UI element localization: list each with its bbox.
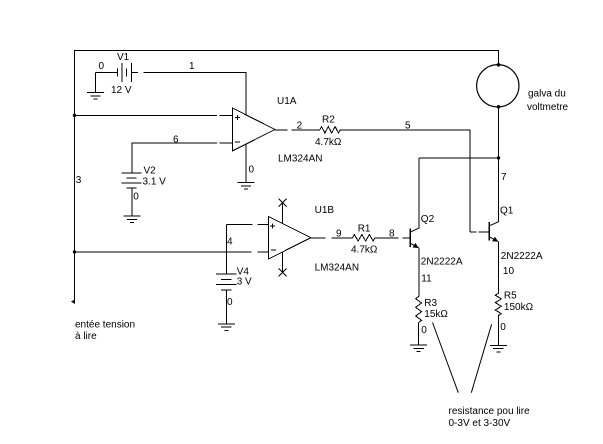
svg-text:7: 7 xyxy=(501,172,507,183)
U1B V- power pin (unconnected) xyxy=(282,252,284,273)
battery V1 plates xyxy=(116,68,118,76)
U1B V+ power pin (unconnected) xyxy=(282,203,284,224)
svg-text:V1: V1 xyxy=(117,52,130,63)
galvanometer bottom pin dot xyxy=(497,105,501,109)
Q2 emitter arrowhead xyxy=(413,243,419,248)
ground at V1 xyxy=(87,92,104,94)
svg-text:R2: R2 xyxy=(322,115,335,126)
svg-text:U1A: U1A xyxy=(277,96,297,107)
svg-text:2N2222A: 2N2222A xyxy=(501,251,543,262)
svg-text:galva du: galva du xyxy=(528,89,566,100)
U1B V+ pin X mark xyxy=(279,199,287,207)
wire net 5 from R2 to Q1 base xyxy=(340,129,470,131)
svg-text:voltmetre: voltmetre xyxy=(527,102,569,113)
svg-text:10: 10 xyxy=(503,266,515,277)
junction dot net 7 xyxy=(497,156,500,159)
transistor Q1 base bar xyxy=(488,222,490,241)
svg-text:3.1 V: 3.1 V xyxy=(143,177,167,188)
wire net 7 galvanometer to Q1 collector xyxy=(498,107,500,222)
junction dot net 3 at inverting input wire xyxy=(73,250,76,253)
wire V1 negative lead xyxy=(96,72,118,74)
U1A plus sign xyxy=(235,117,240,119)
Q2 emitter diagonal xyxy=(411,243,419,247)
svg-text:à lire: à lire xyxy=(75,331,97,342)
op-amp U1A triangle xyxy=(233,108,276,151)
svg-text:4: 4 xyxy=(227,237,233,248)
svg-text:0: 0 xyxy=(99,61,105,72)
wire V1 ground lead xyxy=(95,73,97,93)
svg-text:6: 6 xyxy=(173,135,179,146)
wire end marker (entree tension, open end) xyxy=(71,299,75,304)
svg-text:0: 0 xyxy=(421,325,427,336)
wire V2 top lead xyxy=(131,143,133,174)
Q1 collector diagonal xyxy=(490,222,499,226)
svg-text:Q1: Q1 xyxy=(500,206,514,217)
svg-text:2: 2 xyxy=(297,121,303,132)
op-amp U1B triangle xyxy=(269,217,311,260)
svg-text:150kΩ: 150kΩ xyxy=(504,302,534,313)
svg-text:R3: R3 xyxy=(424,298,437,309)
wire V4 to ground xyxy=(225,290,227,324)
U1B plus sign xyxy=(270,225,275,227)
svg-text:0: 0 xyxy=(227,297,233,308)
ground at V4 xyxy=(218,323,235,325)
wire U1A non-inverting input xyxy=(75,114,217,116)
wire R3 to ground xyxy=(418,323,420,346)
wire net 7 branch to Q2 collector xyxy=(419,157,499,159)
svg-text:4.7kΩ: 4.7kΩ xyxy=(315,137,342,148)
callout line from R5 xyxy=(471,324,491,392)
Q1 emitter arrowhead xyxy=(492,237,498,242)
resistor R3 xyxy=(416,297,422,323)
wire net 4 vertical to V4 xyxy=(225,224,227,273)
wire V2 to ground xyxy=(131,188,133,216)
U1A minus sign xyxy=(235,141,240,143)
battery V4 plates xyxy=(216,273,237,275)
galvanometer top pin dot xyxy=(497,63,501,67)
svg-text:LM324AN: LM324AN xyxy=(278,154,322,165)
wire net 6 U1A inverting input xyxy=(132,142,217,144)
wire galvanometer top lead xyxy=(498,50,500,65)
svg-text:0: 0 xyxy=(249,165,255,176)
transistor Q2 base bar xyxy=(409,228,411,247)
svg-text:11: 11 xyxy=(421,274,432,285)
ground at R5 xyxy=(490,344,507,346)
svg-text:LM324AN: LM324AN xyxy=(315,263,359,274)
svg-text:3 V: 3 V xyxy=(237,277,252,288)
U1A V- power pin to ground xyxy=(245,144,247,182)
svg-text:5: 5 xyxy=(405,121,411,132)
Q2 collector diagonal xyxy=(411,228,419,232)
svg-text:resistance pou lire: resistance pou lire xyxy=(449,406,531,417)
wire U1B non-inverting input (net 4) xyxy=(226,223,252,225)
svg-text:15kΩ: 15kΩ xyxy=(424,309,448,320)
svg-text:V2: V2 xyxy=(144,166,157,177)
svg-text:4.7kΩ: 4.7kΩ xyxy=(351,245,378,256)
ground at V2 xyxy=(124,215,141,217)
Q1 emitter lead down xyxy=(498,241,500,293)
svg-text:0: 0 xyxy=(133,192,139,203)
battery V2 plates xyxy=(122,172,142,174)
ground at U1A V- pin xyxy=(238,182,255,184)
svg-text:U1B: U1B xyxy=(315,205,335,216)
svg-text:9: 9 xyxy=(336,228,342,239)
svg-text:Q2: Q2 xyxy=(421,214,435,225)
wire net 8 R1 to Q2 base xyxy=(375,237,398,239)
wire U1B inverting input from left rail xyxy=(75,251,252,253)
svg-text:R1: R1 xyxy=(358,224,371,235)
svg-text:2N2222A: 2N2222A xyxy=(421,257,463,268)
Q2 emitter lead down xyxy=(418,248,420,297)
svg-text:0: 0 xyxy=(500,322,506,333)
U1B V- pin X mark xyxy=(279,268,287,276)
junction dot net 3 at U1A non-inverting input xyxy=(73,114,76,117)
svg-text:R5: R5 xyxy=(504,290,517,301)
wire net 1 from V1 positive to U1A V+ pin xyxy=(131,72,138,74)
Q1 emitter diagonal xyxy=(490,237,498,241)
wire top rail (net 3) from left rail to galvanometer xyxy=(75,50,499,52)
svg-text:8: 8 xyxy=(389,228,395,239)
wire left rail (net 3) vertical xyxy=(74,50,76,303)
resistor R5 xyxy=(495,293,501,315)
svg-text:3: 3 xyxy=(76,175,82,186)
ground at R3 xyxy=(410,344,427,346)
svg-text:0-3V et 3-30V: 0-3V et 3-30V xyxy=(449,418,511,429)
U1B minus sign xyxy=(271,249,276,251)
wire R5 to ground xyxy=(497,316,499,346)
resistor R2 xyxy=(320,127,340,133)
Q2 collector lead up xyxy=(418,158,420,228)
wire net 2 U1A output xyxy=(275,129,287,131)
wire net 9 U1B output xyxy=(311,237,326,239)
resistor R1 xyxy=(353,235,376,241)
galvanometer of voltmeter (circle) xyxy=(477,65,519,107)
callout line from R3 xyxy=(433,323,459,393)
svg-text:12 V: 12 V xyxy=(111,85,132,96)
svg-text:entée tension: entée tension xyxy=(75,320,135,331)
svg-text:1: 1 xyxy=(189,61,195,72)
